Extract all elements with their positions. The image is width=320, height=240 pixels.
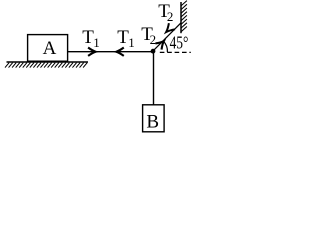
svg-text:A: A [43, 38, 57, 59]
svg-text:45°: 45° [170, 33, 189, 53]
svg-text:B: B [146, 112, 159, 133]
svg-text:2: 2 [167, 9, 174, 24]
svg-text:1: 1 [128, 35, 135, 50]
svg-text:2: 2 [150, 32, 157, 47]
svg-text:1: 1 [93, 35, 100, 50]
